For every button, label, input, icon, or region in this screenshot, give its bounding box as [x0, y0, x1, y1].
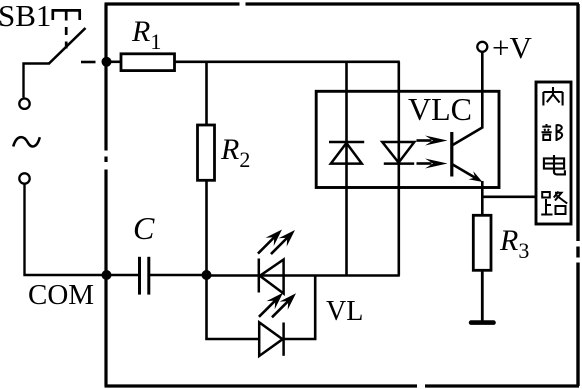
- LED VL upper diode: [259, 259, 284, 294]
- wire node B to capacitor: [106, 274, 139, 277]
- frame left border: [104, 4, 107, 386]
- opto phototransistor: [452, 128, 485, 187]
- terminal circle lower: [19, 173, 29, 183]
- wire capacitor to node C: [149, 274, 207, 277]
- pushbutton SB1 actuator: [52, 10, 82, 20]
- wire to internal circuit box: [482, 196, 536, 199]
- LED VL lower diode: [259, 322, 283, 356]
- internal circuit character bu: [542, 124, 563, 141]
- wire emitter to R3: [481, 181, 484, 216]
- wire dash from blade to node A: [81, 61, 96, 64]
- svg-text:VL: VL: [326, 296, 363, 327]
- internal circuit character lu: [541, 192, 567, 215]
- node C junction dot: [202, 270, 212, 280]
- optocoupler VLC box: [316, 91, 499, 187]
- wire R2 bottom lead: [205, 180, 208, 275]
- frame right border: [576, 4, 579, 386]
- internal circuit character nei: [543, 87, 562, 106]
- terminal circle upper: [19, 99, 29, 109]
- internal circuit character dian: [544, 155, 565, 174]
- resistor R3: [473, 215, 491, 270]
- wire LED bottom loop right: [284, 276, 316, 340]
- internal circuit box: [536, 82, 571, 224]
- wire lower terminal to COM node: [25, 185, 107, 276]
- opto input diode D2: [382, 142, 414, 164]
- wire R3 to ground: [481, 270, 484, 321]
- frame bottom border: [105, 384, 580, 387]
- wire LED top row: [207, 274, 400, 277]
- opto light transmission arrows: [417, 136, 448, 169]
- LED VL upper emission arrows: [254, 225, 299, 258]
- wire R2 top lead: [205, 62, 208, 125]
- node B junction dot: [102, 270, 112, 280]
- LED VL lower emission arrows: [255, 289, 300, 322]
- wire R1 to opto diode columns: [175, 60, 400, 63]
- AC source symbol: [13, 137, 40, 146]
- wire node A to R1: [106, 60, 121, 63]
- svg-text:+V: +V: [492, 30, 532, 65]
- ground: [469, 320, 496, 325]
- pushbutton SB1 blade: [49, 28, 86, 64]
- svg-text:VLC: VLC: [408, 91, 472, 127]
- wire opto input diode D1 column: [345, 62, 348, 276]
- svg-text:SB1: SB1: [0, 0, 51, 33]
- +V terminal circle: [477, 42, 487, 52]
- capacitor C: [140, 257, 149, 295]
- svg-text:C: C: [133, 210, 155, 246]
- svg-text:COM: COM: [28, 279, 94, 311]
- resistor R1: [121, 54, 175, 71]
- wire opto input diode D2 column: [397, 62, 400, 276]
- wire LED bottom loop left: [207, 276, 260, 340]
- resistor R2: [198, 125, 215, 180]
- pushbutton SB1 dashed link: [65, 12, 68, 49]
- wire +V to collector: [481, 53, 484, 129]
- wire switch left lead: [24, 64, 51, 98]
- frame top border: [105, 2, 580, 5]
- node A junction dot: [102, 57, 112, 67]
- opto input diode D1: [329, 142, 364, 164]
